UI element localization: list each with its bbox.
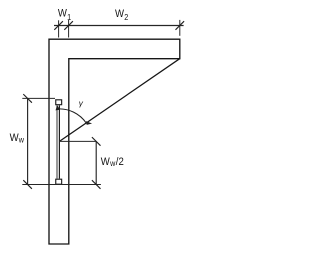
Ww bottom extension line shared with Ww/2 [22, 184, 101, 186]
bracket diagonal edge [59, 59, 179, 142]
W1 left extension line [58, 20, 60, 37]
weld end box bottom [56, 179, 62, 184]
angle arc arrowhead on diagonal [86, 121, 92, 125]
tick W2 right [176, 21, 185, 30]
W2 right extension line [179, 20, 181, 36]
Ww/2 vertical dimension line [95, 141, 97, 184]
tick W1 right [64, 21, 73, 30]
W1 right extension line [68, 20, 70, 38]
Ww dimension line [27, 98, 29, 184]
tick Ww top [23, 94, 32, 103]
angle arc arrowhead up [56, 105, 61, 110]
Ww/2 horizontal reference from weld midpoint [59, 140, 96, 142]
tick W1 left [54, 21, 63, 30]
weld line (double) [56, 105, 58, 178]
tick Ww bottom [23, 180, 32, 189]
column and bracket outline [49, 39, 180, 244]
top dimension line W1/W2 [54, 25, 184, 27]
tick Ww/2 bottom [92, 180, 101, 189]
tick Ww/2 top [92, 137, 101, 146]
Ww top extension line [22, 97, 55, 99]
weld end box top [56, 100, 62, 105]
angle arc gamma [57, 109, 86, 123]
